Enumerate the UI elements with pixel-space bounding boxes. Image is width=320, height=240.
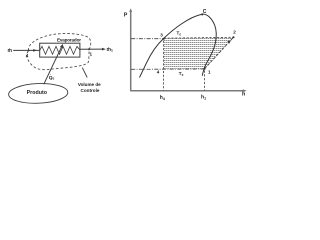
svg-text:h: h — [242, 92, 245, 98]
svg-text:Produto: Produto — [27, 90, 48, 96]
svg-text:Controle: Controle — [81, 88, 100, 93]
svg-text:ṁ: ṁ — [8, 48, 13, 54]
svg-text:ṁ1: ṁ1 — [107, 47, 113, 53]
svg-text:4: 4 — [26, 53, 29, 58]
svg-text:2: 2 — [233, 30, 236, 35]
svg-text:1: 1 — [208, 70, 211, 75]
svg-text:P: P — [124, 13, 128, 19]
svg-text:4: 4 — [157, 70, 160, 75]
svg-text:1: 1 — [90, 52, 93, 57]
svg-text:C: C — [203, 9, 207, 15]
svg-text:Evaporador: Evaporador — [57, 37, 81, 42]
svg-text:Volume de: Volume de — [78, 82, 101, 87]
svg-text:3: 3 — [160, 32, 163, 37]
